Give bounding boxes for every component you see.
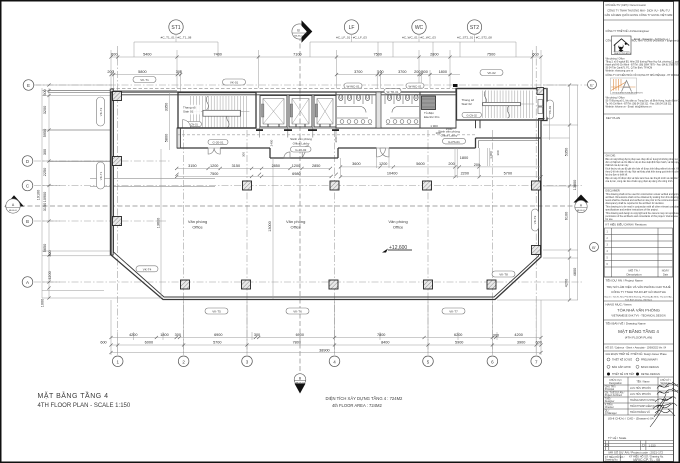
svg-text:BẢN CẤP GPXD: BẢN CẤP GPXD xyxy=(612,366,631,369)
svg-text:VK-T7: VK-T7 xyxy=(449,310,458,314)
svg-text:3150: 3150 xyxy=(43,203,47,211)
svg-text:1800: 1800 xyxy=(439,70,447,74)
svg-text:MĐ-4Đ-01: MĐ-4Đ-01 xyxy=(9,210,17,212)
svg-text:VK-T8: VK-T8 xyxy=(499,273,508,277)
svg-text:1200: 1200 xyxy=(210,164,218,168)
svg-text:7400: 7400 xyxy=(213,52,221,56)
svg-text:7500: 7500 xyxy=(373,52,381,56)
svg-text:MẶT BẰNG TẦNG 4: MẶT BẰNG TẦNG 4 xyxy=(618,327,659,334)
svg-text:levels shall be checked and ve: levels shall be checked and verified on … xyxy=(606,199,680,202)
svg-text:Văn phòng: Văn phòng xyxy=(388,219,407,224)
svg-text:TỶ LỆ / Scale: TỶ LỆ / Scale xyxy=(608,435,627,440)
svg-text:Văn phòng: Văn phòng xyxy=(286,219,305,224)
svg-text:2850: 2850 xyxy=(312,164,320,168)
svg-text:G-PS-01: G-PS-01 xyxy=(448,140,460,144)
svg-text:200: 200 xyxy=(107,70,113,74)
svg-text:300: 300 xyxy=(43,149,47,155)
svg-text:2250: 2250 xyxy=(43,168,47,176)
svg-text:38900: 38900 xyxy=(319,349,330,353)
svg-text:3600: 3600 xyxy=(352,162,360,166)
svg-text:theo tỷ lệ trên bản vẽ này. Mọ: theo tỷ lệ trên bản vẽ này. Mọi sai khác… xyxy=(606,171,680,174)
svg-text:CÔNG TY TNHH TM-DV-ĐT GÒ MACTH: CÔNG TY TNHH TM-DV-ĐT GÒ MACTHA xyxy=(611,289,666,294)
svg-text:7500: 7500 xyxy=(487,52,495,56)
svg-text:DIỆN TÍCH XÂY DỰNG TẦNG 4 : 72: DIỆN TÍCH XÂY DỰNG TẦNG 4 : 724M2 xyxy=(326,396,404,401)
svg-text:W-WC-01: W-WC-01 xyxy=(408,84,421,88)
svg-text:G-20-02: G-20-02 xyxy=(295,148,306,152)
svg-text:G-20-01: G-20-01 xyxy=(212,141,223,145)
svg-text:7100: 7100 xyxy=(293,52,301,56)
svg-text:Office Lobby: Office Lobby xyxy=(293,141,310,145)
svg-text:đơn vị thiết kế và chủ đầu tư: đơn vị thiết kế và chủ đầu tư dự án theo… xyxy=(606,161,680,164)
svg-text:100: 100 xyxy=(377,70,383,74)
svg-text:200 800: 200 800 xyxy=(414,70,428,74)
svg-text:Email : nhavuong・Architects+(.: Email : nhavuong・Architects+(..) xyxy=(634,38,670,41)
svg-text:Office: Office xyxy=(393,225,404,230)
svg-text:#C_WC_01 - #C_WC_03: #C_WC_01 - #C_WC_03 xyxy=(402,36,436,40)
svg-text:Description: Description xyxy=(626,272,641,276)
svg-text:MĐ-4Đ-02: MĐ-4Đ-02 xyxy=(294,36,302,38)
svg-text:Số 54 Tân Canh(?), P.1, Q.Tân: Số 54 Tân Canh(?), P.1, Q.Tân Bình, TP.H… xyxy=(606,67,653,70)
svg-text:1:150: 1:150 xyxy=(649,443,656,447)
svg-text:200: 200 xyxy=(334,137,338,142)
svg-text:G-CN-02: G-CN-02 xyxy=(467,113,478,117)
svg-text:This drawing shall not be used: This drawing shall not be used for const… xyxy=(606,193,680,196)
svg-text:6000: 6000 xyxy=(145,341,153,345)
svg-text:300: 300 xyxy=(493,334,499,338)
svg-text:E: E xyxy=(27,83,30,88)
svg-text:Q.Manager: Q.Manager xyxy=(605,412,617,415)
svg-text:7800: 7800 xyxy=(293,341,301,345)
svg-text:1,000: 1,000 xyxy=(489,151,493,159)
svg-text:10400: 10400 xyxy=(387,172,398,176)
svg-text:5950: 5950 xyxy=(43,129,47,137)
svg-text:4TH FLOOR PLAN - SCALE 1:150: 4TH FLOOR PLAN - SCALE 1:150 xyxy=(38,403,131,409)
svg-text:Văn phòng / Office:: Văn phòng / Office: xyxy=(606,58,626,61)
svg-text:4th FLOOR AREA : 724M2: 4th FLOOR AREA : 724M2 xyxy=(332,403,382,408)
svg-text:1800: 1800 xyxy=(460,156,468,160)
svg-text:A: A xyxy=(26,280,29,285)
svg-text:4200: 4200 xyxy=(129,333,137,337)
svg-text:NGÀY/: NGÀY/ xyxy=(662,270,670,273)
svg-text:600: 600 xyxy=(536,341,542,345)
svg-text:4200: 4200 xyxy=(565,279,569,287)
svg-text:Drawing No.: Drawing No. xyxy=(605,459,618,462)
svg-text:8400: 8400 xyxy=(381,341,389,345)
svg-text:specifications and written ins: specifications and written instructions … xyxy=(606,209,659,212)
svg-text:Stair 02: Stair 02 xyxy=(462,102,473,106)
svg-text:Văn phòng / Office:: Văn phòng / Office: xyxy=(606,97,626,100)
svg-text:ST2: ST2 xyxy=(470,25,479,31)
svg-text:Tỉnh Bình Dương, Việt Nam: Tỉnh Bình Dương, Việt Nam xyxy=(625,298,652,301)
svg-text:VK-T6: VK-T6 xyxy=(293,310,302,314)
svg-text:CÔNG TY THIẾT KẾ / Architect-E: CÔNG TY THIẾT KẾ / Architect-Engineer xyxy=(606,30,650,33)
svg-text:permission of the architects a: permission of the architects and consult… xyxy=(606,215,680,218)
svg-text:3150: 3150 xyxy=(232,164,240,168)
svg-text:VK-T9: VK-T9 xyxy=(533,215,537,224)
svg-text:MĐ-4Đ-01: MĐ-4Đ-01 xyxy=(577,210,585,212)
svg-text:300: 300 xyxy=(48,250,52,256)
svg-text:1200: 1200 xyxy=(379,162,387,166)
svg-text:PRELIMINARY: PRELIMINARY xyxy=(641,359,658,362)
svg-text:3150: 3150 xyxy=(188,164,196,168)
svg-text:architect. Dimensions shall no: architect. Dimensions shall not be obtai… xyxy=(606,196,680,199)
svg-text:#C_T1_01 - #C_T1_08: #C_T1_01 - #C_T1_08 xyxy=(161,36,192,40)
svg-text:Địa chỉ : Số 25, Khu Phố Bình: Địa chỉ : Số 25, Khu Phố Bình Đường, Phư… xyxy=(605,296,673,299)
svg-text:7500: 7500 xyxy=(210,172,218,176)
svg-text:HT MODERN HOME ARCHITECTS: HT MODERN HOME ARCHITECTS xyxy=(613,91,644,94)
svg-text:5400: 5400 xyxy=(143,52,151,56)
svg-text:KEY PLAN: KEY PLAN xyxy=(606,116,620,120)
svg-text:1 900: 1 900 xyxy=(430,124,438,128)
svg-text:100: 100 xyxy=(435,131,440,135)
svg-text:(AR)C-CP-TL - 08: (AR)C-CP-TL - 08 xyxy=(633,458,660,462)
svg-text:LƯU HỮU PHƯỚC: LƯU HỮU PHƯỚC xyxy=(630,393,651,396)
svg-text:WC: WC xyxy=(415,25,424,31)
svg-text:19100: 19100 xyxy=(37,190,41,201)
svg-text:Office: Office xyxy=(192,225,203,230)
svg-text:13600: 13600 xyxy=(156,218,160,229)
svg-text:LƯU HỮU PHƯỚC: LƯU HỮU PHƯỚC xyxy=(630,387,651,390)
svg-text:của dự án, cùng các tiêu chuẩn: của dự án, cùng các tiêu chuẩn quy phạm … xyxy=(606,180,674,183)
svg-text:3200: 3200 xyxy=(43,106,47,114)
svg-text:ST1: ST1 xyxy=(171,25,180,31)
svg-text:3900: 3900 xyxy=(517,341,525,345)
svg-text:HỒ SƠ / Cadence - Sheet + As: HỒ SƠ / Cadence - Sheet + Associate - 10… xyxy=(606,347,667,350)
svg-text:discrepancy shall be reported: discrepancy shall be reported to the arc… xyxy=(606,202,665,205)
svg-text:DISCLAIMER:: DISCLAIMER: xyxy=(606,190,621,193)
svg-text:This drawing is to be read in: This drawing is to be read in conjunctio… xyxy=(606,206,680,209)
svg-text:VK-T1: VK-T1 xyxy=(140,78,149,82)
svg-text:DETAIL DESIGN: DETAIL DESIGN xyxy=(641,373,660,376)
svg-text:THIẾT KẾ SƠ BỘ: THIẾT KẾ SƠ BỘ xyxy=(612,359,632,362)
svg-text:10900: 10900 xyxy=(43,192,47,203)
svg-text:7800: 7800 xyxy=(377,333,385,337)
svg-text:B': B' xyxy=(592,245,596,250)
svg-text:2200: 2200 xyxy=(461,172,469,176)
svg-text:Bản vẽ này không được phép sao: Bản vẽ này không được phép sao chép để s… xyxy=(606,158,680,161)
svg-text:TÊN BẢN VẼ / Drawing Name: TÊN BẢN VẼ / Drawing Name xyxy=(606,321,647,326)
svg-text:5600: 5600 xyxy=(416,162,424,166)
svg-text:VIETNAMESE OAK TVV - TECHNICAL: VIETNAMESE OAK TVV - TECHNICAL DESIGN xyxy=(611,315,665,318)
svg-text:2800: 2800 xyxy=(430,52,438,56)
svg-text:3350: 3350 xyxy=(165,103,169,111)
svg-text:300: 300 xyxy=(242,152,246,157)
svg-text:6900: 6900 xyxy=(296,333,304,337)
svg-text:6100: 6100 xyxy=(565,212,569,220)
svg-text:#C_ST2_01 - #C_ST2_08: #C_ST2_01 - #C_ST2_08 xyxy=(457,36,492,40)
svg-text:1800: 1800 xyxy=(160,333,168,337)
svg-text:5700: 5700 xyxy=(213,341,221,345)
svg-text:13800: 13800 xyxy=(573,180,577,191)
svg-text:This drawing and design is cop: This drawing and design is copyright and… xyxy=(606,212,680,215)
svg-text:VK-T2: VK-T2 xyxy=(99,107,103,116)
svg-text:5900: 5900 xyxy=(455,341,463,345)
svg-text:300: 300 xyxy=(175,333,181,337)
svg-text:13000: 13000 xyxy=(268,221,272,232)
svg-text:Tầng 3, số 9 ngách B5, Hẻm 250: Tầng 3, số 9 ngách B5, Hẻm 250 đường Pha… xyxy=(606,61,680,64)
svg-text:thiết kế của dự án này.: thiết kế của dự án này. xyxy=(606,164,630,167)
svg-text:5800: 5800 xyxy=(165,134,169,142)
svg-text:600: 600 xyxy=(532,52,538,56)
svg-text:5700: 5700 xyxy=(504,172,512,176)
svg-text:600: 600 xyxy=(100,341,106,345)
svg-text:Date: Date xyxy=(663,273,669,276)
svg-text:4200: 4200 xyxy=(514,333,522,337)
svg-text:1200: 1200 xyxy=(292,164,300,168)
svg-text:for use.: for use. xyxy=(606,218,614,221)
svg-text:Website: hthome.vn - Email: in: Website: hthome.vn - Email: info@hthome.… xyxy=(606,106,653,109)
svg-text:VK-T5: VK-T5 xyxy=(212,310,221,314)
svg-text:lại cho đơn vị thiết kế.: lại cho đơn vị thiết kế. xyxy=(606,174,629,177)
svg-text:4800: 4800 xyxy=(573,268,577,276)
svg-text:BASIC DESIGN: BASIC DESIGN xyxy=(641,366,659,369)
svg-text:4200: 4200 xyxy=(48,271,52,279)
svg-text:2850: 2850 xyxy=(272,164,280,168)
svg-text:6980: 6980 xyxy=(292,172,300,176)
svg-text:TRẦN HOÀNG VŨ: TRẦN HOÀNG VŨ xyxy=(630,411,650,414)
svg-text:GIAI ĐOẠN THIẾT KẾ / THIẾT KẾ: GIAI ĐOẠN THIẾT KẾ / THIẾT KẾ / Design C… xyxy=(606,353,668,356)
svg-text:LF: LF xyxy=(349,25,355,31)
svg-text:VK-03: VK-03 xyxy=(548,106,552,115)
svg-text:MÃ SỐ DỰ ÁN / Project code :: MÃ SỐ DỰ ÁN / Project code : 2021-172 xyxy=(609,449,664,454)
svg-text:GHI CHÚ:: GHI CHÚ: xyxy=(606,155,617,158)
svg-text:VK-T1: VK-T1 xyxy=(99,171,103,180)
svg-text:1500: 1500 xyxy=(446,127,453,131)
svg-text:E': E' xyxy=(590,83,594,88)
svg-text:TRỤ SỞ LÀM VIỆC VÀ VĂN PHÒNG C: TRỤ SỞ LÀM VIỆC VÀ VĂN PHÒNG CHO THUÊ xyxy=(606,284,670,289)
svg-text:Office: Office xyxy=(291,225,302,230)
svg-text:6900: 6900 xyxy=(214,333,222,337)
svg-text:5800: 5800 xyxy=(138,70,146,74)
svg-text:HẠNG MỤC / Items: HẠNG MỤC / Items xyxy=(606,303,633,307)
svg-text:HOÀNG MINH VƯƠNG: HOÀNG MINH VƯƠNG xyxy=(630,399,656,402)
svg-text:thành phố Hồ Chí Minh - ĐT/Tel: thành phố Hồ Chí Minh - ĐT/Tel: (08) 389… xyxy=(606,64,680,67)
svg-text:TÊN DỰ ÁN / Project Name: TÊN DỰ ÁN / Project Name xyxy=(606,278,644,283)
svg-text:Electric Rm: Electric Rm xyxy=(424,115,440,119)
svg-text:1000: 1000 xyxy=(41,299,45,307)
svg-text:#C_LF_01 - #C_LF_03: #C_LF_01 - #C_LF_03 xyxy=(336,36,367,40)
svg-text:200: 200 xyxy=(448,162,454,166)
svg-text:TÒA NHÀ VĂN PHÒNG: TÒA NHÀ VĂN PHÒNG xyxy=(617,308,660,313)
svg-text:TÊN / Name: TÊN / Name xyxy=(636,380,650,383)
svg-text:THIẾT KẾ CHI TIẾT: THIẾT KẾ CHI TIẾT xyxy=(612,373,635,376)
svg-text:6200: 6200 xyxy=(454,333,462,337)
svg-text:VK-01: VK-01 xyxy=(230,81,239,85)
svg-text:Bản vẽ này chỉ được đọc và hiể: Bản vẽ này chỉ được đọc và hiểu kèm theo… xyxy=(606,177,680,180)
svg-text:Kích thước và cao độ ghi trên: Kích thước và cao độ ghi trên bản vẽ đượ… xyxy=(606,168,680,171)
svg-text:CÔNG TY CP KIẾN TRÚC XÂY DỰNG: CÔNG TY CP KIẾN TRÚC XÂY DỰNG HT NHÀ HIỆ… xyxy=(606,74,680,77)
svg-text:W-TR-01: W-TR-01 xyxy=(386,90,398,94)
svg-text:NHA VUONG ARCH: NHA VUONG ARCH xyxy=(614,52,632,55)
svg-text:Website: nhavuong.com.vn: Website: nhavuong.com.vn xyxy=(606,70,634,73)
svg-text:3700: 3700 xyxy=(354,70,362,74)
svg-text:5650: 5650 xyxy=(43,244,47,252)
svg-text:B: B xyxy=(26,219,29,224)
svg-text:Stair 01: Stair 01 xyxy=(183,110,194,114)
svg-text:(4TH FLOOR PLAN): (4TH FLOOR PLAN) xyxy=(625,336,653,340)
svg-text:Designation: Designation xyxy=(609,382,622,385)
svg-text:W-WC-01: W-WC-01 xyxy=(346,84,359,88)
svg-text:3700: 3700 xyxy=(398,70,406,74)
svg-text:2400: 2400 xyxy=(269,139,273,146)
svg-text:300: 300 xyxy=(254,333,260,337)
svg-text:Tp. Hồ Chí Minh - ĐT/Tel: (08): Tp. Hồ Chí Minh - ĐT/Tel: (08) 54 318 31… xyxy=(606,103,673,106)
svg-text:300: 300 xyxy=(496,150,500,155)
svg-text:600: 600 xyxy=(111,52,117,56)
svg-text:500: 500 xyxy=(43,89,47,95)
svg-text:VK-T4: VK-T4 xyxy=(143,267,152,271)
svg-text:Văn phòng: Văn phòng xyxy=(188,219,207,224)
svg-text:Số 79 Đường số 1, khu dân cư T: Số 79 Đường số 1, khu dân cư Trung Sơn, … xyxy=(606,100,680,103)
svg-text:5350: 5350 xyxy=(565,148,569,156)
svg-text:300: 300 xyxy=(176,70,182,74)
svg-text:(GHI CHÚ+) / CAD - (Drawer+): (GHI CHÚ+) / CAD - (Drawer+) 04 xyxy=(608,416,654,421)
svg-text:VK-02: VK-02 xyxy=(487,71,496,75)
svg-text:CHỦ ĐẦU TƯ (CĐT) / Owner-Inves: CHỦ ĐẦU TƯ (CĐT) / Owner-Investor xyxy=(606,4,647,7)
svg-text:Office Lobby: Office Lobby xyxy=(441,134,458,138)
